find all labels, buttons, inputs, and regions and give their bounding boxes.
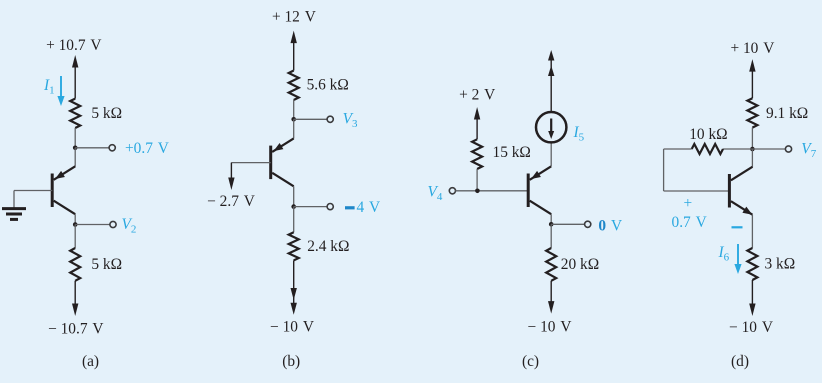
svg-text:9.1 kΩ: 9.1 kΩ [766, 105, 808, 122]
base supply arrow down -2.7 V [228, 178, 234, 191]
resistor 2.4 kOhm (b) [289, 232, 299, 260]
supply arrow up (b) [291, 31, 297, 71]
wire collector to node V2 [74, 214, 76, 224]
terminal +0.7 V (a) [109, 145, 115, 151]
wire node V7 to feedback resistor [723, 148, 752, 150]
wire current source up (c) [550, 57, 552, 112]
wire node 0V to terminal [551, 223, 585, 225]
terminal V3 [327, 116, 333, 122]
svg-text:(b): (b) [282, 353, 300, 370]
ground [2, 209, 26, 220]
current arrow I6 [734, 244, 741, 274]
svg-text:4 V: 4 V [357, 199, 381, 216]
resistor 3 kOhm (d) [747, 248, 757, 280]
resistor 5 kOhm upper (a) [70, 99, 80, 128]
node -4V dot [291, 204, 296, 209]
current source I5 [536, 112, 566, 142]
wire node -4V to resistor (b) [293, 207, 295, 233]
svg-text:+: + [683, 195, 692, 212]
svg-text:2.4 kΩ: 2.4 kΩ [307, 238, 349, 255]
svg-text:+0.7 V: +0.7 V [125, 140, 169, 157]
svg-text:10 kΩ: 10 kΩ [689, 126, 727, 143]
svg-text:− 2.7 V: − 2.7 V [207, 193, 255, 210]
svg-text:+ 2 V: + 2 V [459, 86, 495, 103]
svg-text:5.6 kΩ: 5.6 kΩ [307, 77, 349, 94]
resistor 10 kOhm feedback (d) [692, 144, 723, 154]
resistor 20 kOhm (c) [546, 248, 556, 281]
wire node E to terminal (a) [75, 147, 109, 149]
terminal V4 [449, 188, 455, 194]
wire node 0V to resistor (c) [550, 224, 552, 248]
svg-text:+ 10 V: + 10 V [730, 40, 774, 57]
base node dot (c) [475, 189, 480, 194]
resistor 5.6 kOhm (b) [289, 71, 299, 101]
base wire Q2 [231, 163, 270, 179]
svg-text:3 kΩ: 3 kΩ [765, 256, 796, 273]
transistor Q2 (PNP) [271, 138, 294, 186]
wire node V2 to resistor (a) [74, 225, 76, 249]
transistor Q3 (PNP) [528, 166, 551, 214]
wire terminal V4 to base (c) [455, 190, 528, 192]
node E dot (a) [73, 146, 78, 151]
supply arrow down (a) [72, 281, 78, 316]
wire resistor to node V7 (d) [751, 128, 753, 149]
wire collector to node -4V [293, 186, 295, 206]
wire emitter to resistor (d) [751, 215, 753, 248]
transistor Q4 (NPN) [729, 167, 752, 215]
node V2 dot [73, 222, 78, 227]
feedback wire left segment [664, 149, 730, 191]
supply arrow up (c) [474, 107, 480, 139]
svg-text:(c): (c) [522, 353, 539, 370]
current arrow I1 [57, 76, 64, 106]
polarity label - (d) [732, 226, 743, 228]
svg-text:15 kΩ: 15 kΩ [493, 144, 531, 161]
wire resistor to node E (a) [74, 128, 76, 148]
node V7 dot [750, 147, 755, 152]
supply arrow up (d) [749, 59, 755, 98]
wire emitter to current source (c) [550, 142, 552, 166]
svg-text:− 10 V: − 10 V [528, 319, 572, 336]
svg-text:− 10 V: − 10 V [729, 319, 773, 336]
node 0V dot [549, 222, 554, 227]
svg-text:0.7 V: 0.7 V [672, 214, 707, 231]
wire resistor to base node (c) [476, 169, 478, 191]
svg-text:− 10 V: − 10 V [270, 318, 314, 335]
wire node V7 down to collector Q4 [751, 149, 753, 168]
svg-text:0 V: 0 V [598, 218, 622, 235]
svg-text:+ 12 V: + 12 V [272, 9, 316, 26]
terminal V2 [110, 221, 116, 227]
svg-text:+ 10.7 V: + 10.7 V [46, 37, 101, 54]
supply double arrow down (b) [291, 260, 297, 314]
svg-text:5 kΩ: 5 kΩ [91, 105, 122, 122]
wire node V7 to terminal [752, 148, 785, 150]
wire collector to node 0V (c) [550, 214, 552, 224]
wire node V3 to terminal [294, 118, 328, 120]
wire node V2 to terminal [75, 224, 110, 226]
node label -4 V [345, 199, 380, 216]
supply double arrow up (c) [548, 50, 554, 76]
svg-text:(d): (d) [731, 353, 749, 370]
terminal 0 V [585, 221, 591, 227]
terminal V7 [785, 146, 791, 152]
supply arrow down (d) [749, 280, 755, 316]
svg-text:(a): (a) [82, 353, 99, 370]
resistor 15 kOhm (c) [472, 139, 482, 169]
node V3 dot [291, 117, 296, 122]
wire node E down to emitter (a) [74, 148, 76, 167]
base wire Q1 to ground [14, 191, 52, 208]
wire node -4V to terminal [294, 206, 328, 208]
transistor Q1 (PNP) [52, 166, 75, 214]
resistor 9.1 kOhm (d) [747, 98, 757, 127]
wire resistor to node V3 [293, 100, 295, 119]
svg-text:5 kΩ: 5 kΩ [91, 256, 122, 273]
supply arrow up (a) [72, 55, 78, 99]
svg-text:20 kΩ: 20 kΩ [561, 256, 599, 273]
svg-text:− 10.7 V: − 10.7 V [48, 321, 103, 338]
wire node V3 down to emitter (b) [293, 119, 295, 138]
supply arrow down (c) [548, 281, 554, 314]
resistor 5 kOhm lower (a) [70, 248, 80, 281]
terminal -4 V [327, 204, 333, 210]
